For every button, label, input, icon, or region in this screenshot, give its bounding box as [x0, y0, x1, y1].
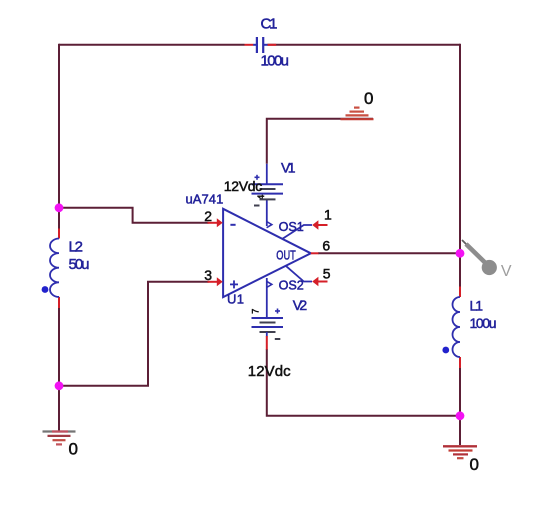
svg-text:uA741: uA741 [186, 191, 224, 206]
ground 0 bottom-right [443, 446, 477, 458]
pin 3 input stub [208, 277, 223, 286]
inductor L1 [453, 287, 460, 369]
wire right vertical [459, 44, 461, 289]
svg-text:C1: C1 [261, 15, 278, 32]
wire V1 top to ground corner [267, 119, 373, 164]
svg-text:5: 5 [323, 266, 331, 282]
pin 2 input stub [208, 218, 223, 227]
wire left vertical below L2 [58, 305, 60, 431]
svg-text:V2: V2 [293, 297, 308, 313]
svg-text:100u: 100u [470, 315, 497, 331]
svg-text:V: V [501, 263, 512, 280]
svg-text:6: 6 [322, 238, 330, 254]
svg-text:U1: U1 [227, 292, 244, 307]
phase dot L2 [42, 286, 49, 293]
svg-text:100u: 100u [261, 52, 290, 69]
OS1 chevron [267, 222, 272, 228]
wire OUT to right vertical [318, 252, 460, 254]
svg-text:12Vdc: 12Vdc [224, 178, 262, 194]
capacitor C1 [245, 37, 277, 53]
svg-text:V1: V1 [281, 160, 296, 176]
svg-text:OS1: OS1 [279, 219, 304, 234]
junction node B [55, 381, 64, 390]
OS2 chevron [267, 281, 272, 287]
wire V2 bottom to bottom rail [267, 349, 460, 416]
phase dot L1 [442, 347, 449, 354]
wire from node A to pin2 [59, 208, 209, 223]
wire left vertical [58, 44, 60, 230]
minus input mark [230, 224, 235, 226]
svg-text:L1: L1 [470, 298, 484, 314]
svg-text:12Vdc: 12Vdc [248, 363, 291, 380]
OS1 pin line [282, 225, 312, 239]
svg-text:50u: 50u [69, 256, 90, 273]
battery V1 [252, 164, 284, 206]
svg-text:0: 0 [69, 439, 78, 458]
voltage probe V [462, 240, 497, 275]
pin 6 output stub [311, 252, 319, 254]
svg-text:1: 1 [324, 207, 332, 223]
svg-text:OS2: OS2 [279, 277, 304, 292]
pin 4 power line (V-) [266, 200, 268, 227]
svg-text:2: 2 [204, 208, 212, 224]
wire right vertical below L1 [459, 365, 461, 445]
junction node A [55, 203, 64, 212]
ground 0 bottom-left [43, 432, 76, 445]
wire top horizontal left segment [59, 44, 245, 46]
svg-text:L2: L2 [69, 239, 84, 256]
inductor L2 [50, 229, 59, 309]
wire from node B to pin3 [59, 282, 209, 386]
svg-text:0: 0 [470, 455, 479, 474]
svg-text:3: 3 [204, 267, 212, 283]
OS2 pin line [286, 266, 312, 282]
battery V2 [252, 309, 284, 350]
pin 1 stub arrow [312, 220, 327, 230]
svg-text:0: 0 [364, 89, 373, 108]
svg-text:7: 7 [251, 309, 262, 314]
pin 7 power line (V+) [266, 278, 268, 318]
svg-text:OUT: OUT [276, 247, 296, 262]
op-amp U1 triangle [223, 209, 311, 297]
junction node bottom right [456, 411, 465, 420]
plus input mark [230, 280, 238, 288]
junction node OUT right [456, 249, 465, 258]
wire top horizontal right segment [268, 44, 461, 46]
ground 0 top (flipped) [341, 108, 374, 120]
pin 5 stub arrow [312, 277, 327, 287]
